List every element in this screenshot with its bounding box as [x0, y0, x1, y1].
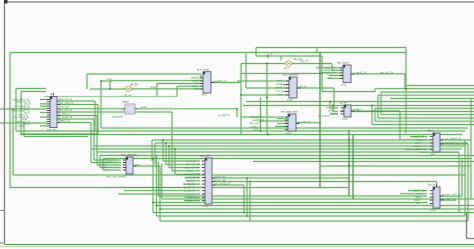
svg-text:alt: alt [270, 53, 273, 56]
svg-text:pll_4x: pll_4x [340, 101, 347, 105]
svg-text:usedw_cnt[3..0]: usedw_cnt[3..0] [442, 193, 460, 197]
pll U6 (pll_4x) [341, 105, 354, 117]
svg-text:pll_osc: pll_osc [124, 93, 133, 97]
svg-text:wren_out: wren_out [58, 105, 69, 109]
wire anti-alias halo layer (all nets) [0, 48, 474, 222]
svg-text:fifo_rx: fifo_rx [428, 128, 436, 132]
svg-text:aclr: aclr [416, 147, 420, 151]
svg-text:aclr: aclr [416, 201, 420, 205]
counter U3 (lpm_counter1) [286, 77, 300, 98]
svg-text:rgb_out[11..0]: rgb_out[11..0] [214, 182, 230, 186]
svg-text:clock: clock [277, 79, 284, 83]
svg-text:rden_q[1..0]: rden_q[1..0] [58, 108, 72, 112]
svg-text:aeb: aeb [135, 162, 140, 166]
svg-text:pfdena: pfdena [330, 112, 338, 116]
svg-text:inst7: inst7 [286, 131, 292, 135]
adder U4 (lpm_add_sub2) [285, 114, 299, 131]
svg-text:state[3..0]: state[3..0] [58, 119, 70, 123]
svg-text:lpm_compare: lpm_compare [121, 153, 137, 157]
svg-text:inst9: inst9 [342, 117, 348, 121]
wire junction dots [12, 63, 407, 217]
clock/oscillator source at (128.5,88.9) [124, 86, 133, 92]
wire segments: main green signal nets and buses [0, 48, 474, 222]
svg-text:cnt_en: cnt_en [276, 89, 284, 93]
fifo U7 (fifo_rx) [430, 133, 443, 152]
svg-text:empty_flag_n: empty_flag_n [442, 141, 458, 145]
svg-text:en0: en0 [107, 77, 112, 81]
svg-text:ram_2port: ram_2port [337, 60, 349, 64]
svg-text:tag_a: tag_a [24, 122, 31, 126]
svg-text:lpm_counter1: lpm_counter1 [283, 73, 299, 77]
svg-text:vsync_out: vsync_out [214, 178, 226, 182]
svg-text:mode: mode [186, 198, 193, 202]
svg-text:q[9..0]: q[9..0] [299, 84, 306, 88]
wire segments: light-green nets [44, 97, 459, 153]
svg-text:ram_q[7..0]: ram_q[7..0] [380, 70, 393, 74]
svg-text:full_flag_out: full_flag_out [442, 197, 456, 201]
svg-text:result[15..0]: result[15..0] [213, 79, 227, 83]
svg-text:clkctrl: clkctrl [122, 100, 129, 104]
svg-text:sload: sload [276, 82, 283, 86]
svg-text:fifo_tx: fifo_tx [428, 182, 436, 186]
svg-text:inst_cpu: inst_cpu [47, 128, 57, 132]
clock control block (altclkctrl) [122, 104, 137, 114]
comparator U9 (lpm_compare) [123, 157, 136, 174]
fifo U8 (fifo_tx) [430, 185, 443, 209]
svg-text:inst3: inst3 [201, 93, 207, 97]
svg-text:aclr: aclr [278, 93, 282, 97]
svg-text:inst2: inst2 [430, 152, 436, 156]
multiplier U2 (lpm_mult0) [200, 72, 214, 93]
svg-text:data_o[7..0]: data_o[7..0] [58, 97, 72, 101]
svg-text:cs_rom[3..0]: cs_rom[3..0] [58, 115, 73, 119]
svg-text:inst5: inst5 [287, 98, 293, 102]
vga controller U10 (vga_ctrl) [202, 158, 215, 204]
svg-text:clock: clock [194, 87, 201, 91]
svg-text:lpm_mult0: lpm_mult0 [197, 67, 210, 71]
svg-text:inst8: inst8 [203, 204, 209, 208]
svg-text:clock: clock [326, 76, 333, 80]
svg-text:altclkctrl0: altclkctrl0 [112, 115, 123, 119]
svg-text:aclr: aclr [254, 128, 258, 132]
wire segments: dark bus trunks (clock and data verticals) [268, 53, 353, 200]
svg-text:outclk: outclk [140, 105, 147, 109]
svg-text:c0_out: c0_out [353, 108, 361, 112]
svg-text:clk_50: clk_50 [130, 83, 138, 87]
svg-text:vga_ctrl: vga_ctrl [200, 154, 210, 158]
cpu core U1 [47, 97, 60, 128]
ram U5 (ram_2port) [340, 65, 354, 83]
svg-text:ready: ready [18, 124, 25, 128]
svg-text:pll_in: pll_in [284, 66, 291, 70]
clock/oscillator source at (288.5,63.5) [284, 61, 293, 67]
svg-text:inst1: inst1 [341, 82, 347, 86]
svg-text:addr_q[15..0]: addr_q[15..0] [58, 101, 74, 105]
svg-text:inst4: inst4 [430, 208, 436, 212]
svg-text:data[9..0]: data[9..0] [275, 86, 286, 90]
svg-text:cs_ram_n: cs_ram_n [58, 112, 70, 116]
svg-text:result[9..0]: result[9..0] [298, 120, 310, 124]
svg-text:inst_cmp_match0: inst_cmp_match0 [106, 175, 127, 179]
svg-text:q_sig[9..0]: q_sig[9..0] [218, 113, 230, 117]
svg-text:q_out_data[7..0]: q_out_data[7..0] [442, 137, 461, 141]
svg-text:c0sig: c0sig [150, 85, 157, 89]
svg-text:cpu: cpu [50, 93, 55, 96]
svg-text:q_ram[7..0]: q_ram[7..0] [353, 70, 366, 74]
svg-text:hsync_out: hsync_out [214, 175, 226, 179]
svg-text:net_77: net_77 [300, 59, 308, 63]
svg-text:lpm_add_sub2: lpm_add_sub2 [281, 110, 299, 114]
